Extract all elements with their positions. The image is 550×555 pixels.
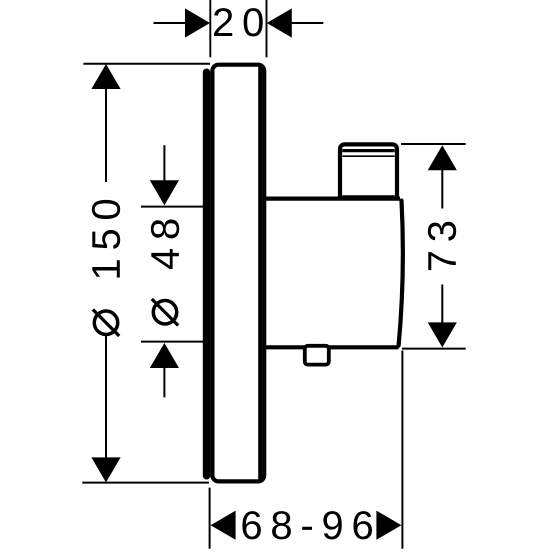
dim 73 top reference line <box>401 143 466 145</box>
knob cap seam line 1 <box>342 149 394 152</box>
dim 73 bottom reference line <box>402 348 466 350</box>
dim 68-96 left arrow <box>211 511 236 540</box>
dim D150 bottom reference line <box>82 482 209 484</box>
dim D48 label <box>151 220 179 270</box>
dim 73 up arrow <box>428 145 457 170</box>
knob cap seam line 2 <box>342 155 394 157</box>
handle bottom tab <box>305 346 329 365</box>
dim D150 down arrow <box>91 457 120 482</box>
dim 20 left arrow <box>185 8 210 37</box>
dim D150 top reference line <box>83 63 210 65</box>
dim D150 label <box>92 200 120 278</box>
handle body right edge <box>399 201 403 346</box>
dim D48 top stem <box>163 145 165 181</box>
dim 73 upper line segment <box>441 169 443 209</box>
dim 20 label <box>214 8 263 36</box>
dim 73 lower line segment <box>441 285 443 325</box>
dim 68-96 right extension line <box>401 351 403 549</box>
dim D48 top arrow (down) <box>150 180 179 205</box>
dim 68-96 left extension line <box>209 488 211 549</box>
dim D48 bottom tick <box>141 341 203 343</box>
knob bottom seam <box>342 195 394 197</box>
plate back lip <box>203 72 211 475</box>
handle body top edge <box>266 197 400 201</box>
dim 73 down arrow <box>428 322 457 347</box>
dim D150 upper line segment <box>105 87 107 182</box>
temperature knob outline <box>340 144 397 199</box>
dim 20 left leader line <box>154 22 188 24</box>
dim 68-96 right arrow <box>376 511 401 540</box>
dim 73 label <box>428 222 456 270</box>
dim D150 lower line segment <box>105 336 107 458</box>
plate front face inner edge <box>258 67 262 480</box>
dim D150 up arrow <box>91 64 120 89</box>
dim 20 right arrow <box>267 8 292 37</box>
escutcheon plate outline (side view) <box>212 65 264 482</box>
dim 20 right leader line <box>290 22 323 24</box>
dim 68-96 label <box>242 511 372 539</box>
dim D48 bottom arrow (up) <box>150 343 179 368</box>
handle body bottom edge <box>266 345 399 349</box>
dim 20 right extension line <box>266 0 268 57</box>
dim 20 left extension line <box>209 0 211 57</box>
dim D48 top tick <box>141 206 203 208</box>
dim D48 bottom stem <box>163 367 165 397</box>
